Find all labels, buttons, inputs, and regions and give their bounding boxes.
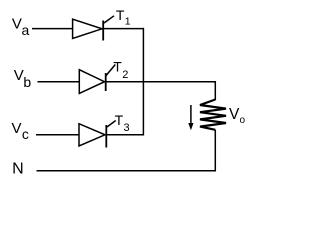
gate of T1 (104, 16, 114, 23)
node Vb (14, 67, 32, 90)
svg-text:1: 1 (125, 15, 131, 27)
svg-text:o: o (240, 115, 246, 126)
wire N return (37, 170, 217, 172)
thyristor T2 (79, 70, 105, 94)
arrow Vo polarity (188, 105, 193, 130)
thyristor T3 (79, 124, 106, 148)
node Vc (12, 120, 29, 142)
svg-text:V: V (229, 106, 240, 123)
wire load top lead (214, 81, 216, 100)
svg-text:T: T (113, 59, 122, 75)
svg-text:V: V (12, 120, 22, 137)
label T3 (115, 112, 130, 134)
gate of T2 (106, 65, 116, 77)
svg-text:V: V (14, 67, 24, 84)
svg-text:2: 2 (122, 69, 128, 81)
thyristor T1 (73, 19, 104, 40)
svg-text:c: c (22, 126, 29, 142)
wire T3 cathode to bus (106, 134, 144, 136)
svg-text:T: T (116, 7, 125, 23)
wire Vb to T2 anode (38, 81, 80, 83)
svg-text:N: N (12, 160, 24, 177)
svg-text:a: a (22, 22, 30, 38)
node Va (12, 15, 30, 37)
svg-text:T: T (115, 112, 124, 128)
wire Vc to T3 anode (36, 134, 79, 136)
bus wire common cathode vertical (142, 28, 144, 136)
wire Va to T1 anode (32, 28, 73, 30)
resistor R load (200, 100, 226, 130)
label T1 (116, 7, 131, 27)
svg-text:V: V (12, 15, 22, 32)
label Vo (229, 106, 246, 126)
label T2 (113, 59, 128, 82)
wire T2 cathode to load (106, 81, 216, 83)
svg-text:b: b (23, 74, 31, 90)
wire T1 cathode to bus (103, 28, 144, 30)
gate of T3 (107, 121, 116, 128)
svg-text:3: 3 (124, 122, 130, 134)
wire load bottom lead (214, 130, 216, 171)
